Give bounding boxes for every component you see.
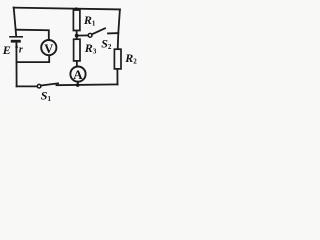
svg-text:A: A: [73, 67, 83, 82]
resistor R2 box: [114, 49, 121, 69]
svg-text:r: r: [19, 45, 23, 56]
wire node to switch S2: [77, 34, 88, 36]
battery E short plate: [12, 40, 19, 43]
node junction ammeter-bottom wire: [76, 83, 80, 87]
wire voltmeter top: [16, 30, 49, 40]
battery EMF arrowhead on wire: [15, 44, 18, 48]
wire left lower: [15, 42, 17, 86]
switch S1 pivot: [37, 84, 41, 88]
svg-text:V: V: [44, 42, 53, 56]
battery E long plate: [10, 36, 22, 38]
wire left upper: [14, 8, 17, 37]
wire R3 to ammeter: [76, 61, 78, 67]
wire R3 top stub: [76, 36, 78, 40]
wire right upper: [118, 9, 120, 49]
ammeter A1 circle: [70, 67, 85, 82]
resistor R3 box: [74, 39, 80, 61]
switch S2 blade: [92, 28, 105, 34]
wire right lower: [116, 69, 118, 85]
voltmeter V1 circle: [41, 40, 56, 55]
wire bottom left: [17, 85, 38, 87]
wire top: [14, 8, 120, 10]
switch S1 blade: [41, 83, 58, 85]
node junction top of R1: [75, 7, 78, 10]
wire ammeter bottom stub: [77, 82, 79, 86]
wire R1 bottom stub: [76, 31, 78, 36]
switch S2 pivot: [88, 33, 92, 37]
node junction between R1 and R3: [75, 34, 79, 38]
resistor R1 box: [73, 10, 80, 31]
wire R1 top stub: [75, 9, 77, 11]
wire bottom right: [57, 83, 118, 86]
wire voltmeter bottom: [17, 56, 50, 63]
wire S2 contact to right border: [108, 32, 118, 34]
svg-text:E: E: [2, 43, 11, 57]
